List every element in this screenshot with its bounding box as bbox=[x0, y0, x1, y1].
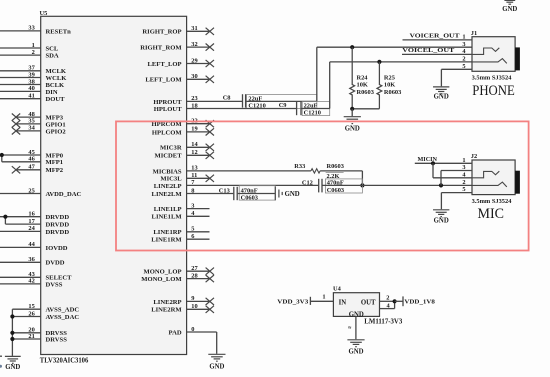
svg-text:PHONE: PHONE bbox=[472, 83, 515, 99]
svg-text:DRVDD: DRVDD bbox=[46, 222, 70, 229]
U5 pin 40 DIN bbox=[0, 85, 58, 96]
svg-text:GND: GND bbox=[209, 364, 224, 371]
svg-text:LINE2RP: LINE2RP bbox=[153, 299, 181, 306]
U5 pin 6 LINE1RM bbox=[151, 233, 209, 244]
svg-text:J2: J2 bbox=[471, 153, 477, 160]
svg-text:OUT: OUT bbox=[361, 299, 376, 306]
U5 pin 5 LINE1RP bbox=[153, 226, 209, 237]
U5 pin 46 MFP1 bbox=[2, 156, 63, 167]
svg-text:C13: C13 bbox=[219, 188, 230, 195]
wire C8 to phone jack pin 3 bbox=[246, 47, 472, 101]
svg-text:24: 24 bbox=[28, 225, 35, 232]
svg-text:R0603: R0603 bbox=[384, 89, 401, 96]
svg-text:MIC3R: MIC3R bbox=[160, 145, 182, 152]
svg-text:1: 1 bbox=[32, 42, 35, 49]
svg-text:DIN: DIN bbox=[46, 89, 58, 96]
connector J1 3.5mm jack PHONE bbox=[471, 30, 520, 82]
U5 pin 12 MICDET bbox=[154, 149, 214, 160]
U5 pin 37 MCLK bbox=[0, 65, 67, 76]
svg-text:2: 2 bbox=[32, 49, 35, 56]
svg-text:3: 3 bbox=[191, 202, 194, 209]
wire LINE2LM pin8 to C13 bbox=[187, 193, 234, 195]
wire HPLOUT pin18 to C9 bbox=[187, 108, 296, 110]
U5 pin 42 DVSS bbox=[0, 278, 63, 289]
svg-text:C1210: C1210 bbox=[304, 109, 321, 116]
svg-text:RIGHT_ROP: RIGHT_ROP bbox=[142, 29, 181, 36]
svg-text:VDD_1V8: VDD_1V8 bbox=[404, 299, 435, 306]
U5 pin 25 AVDD_DAC bbox=[0, 187, 82, 198]
svg-text:19: 19 bbox=[191, 126, 197, 133]
svg-text:DOUT: DOUT bbox=[46, 96, 66, 103]
svg-text:LEFT_LOP: LEFT_LOP bbox=[148, 61, 182, 68]
U5 pin 7 LINE2LP bbox=[154, 179, 196, 190]
resistor R24 10K R0603 bbox=[350, 47, 374, 109]
svg-text:12: 12 bbox=[191, 149, 197, 156]
svg-text:LINE1LP: LINE1LP bbox=[154, 206, 182, 213]
svg-text:34: 34 bbox=[28, 125, 35, 132]
svg-text:MONO_LOP: MONO_LOP bbox=[143, 269, 181, 276]
U5 pin 48 MFP3 bbox=[12, 111, 64, 122]
svg-text:DRVDD: DRVDD bbox=[46, 229, 70, 236]
U5 pin 45 MFP0 bbox=[0, 149, 64, 160]
ground at PAD bbox=[208, 354, 225, 370]
U5 pin 29 LEFT_LOP bbox=[148, 57, 214, 68]
svg-text:42: 42 bbox=[28, 278, 34, 285]
sideways ground at C13 bbox=[275, 187, 299, 201]
svg-text:VOICER_OUT: VOICER_OUT bbox=[410, 33, 461, 40]
wire PAD pin0 to ground bbox=[187, 332, 217, 354]
wire J1 pin5 to ground bbox=[441, 69, 472, 86]
wire U4 pin4 to OUT net bbox=[380, 301, 395, 309]
capacitor C13 470nF C0603 bbox=[219, 186, 275, 202]
svg-text:HPROUT: HPROUT bbox=[153, 99, 182, 106]
svg-text:44: 44 bbox=[28, 241, 35, 248]
label MIC bbox=[478, 206, 505, 222]
svg-text:25: 25 bbox=[28, 187, 34, 194]
U5 pin 38 BCLK bbox=[0, 78, 65, 89]
svg-text:TLV320AIC3106: TLV320AIC3106 bbox=[40, 357, 89, 364]
ground at J1 pin5 bbox=[433, 87, 449, 101]
wire R24-R25 bottom rail bbox=[350, 107, 379, 111]
svg-text:GND: GND bbox=[502, 6, 517, 13]
U5 pin 26 AVSS_DAC bbox=[12, 310, 79, 321]
svg-text:LINE2RM: LINE2RM bbox=[151, 307, 182, 314]
svg-text:PAD: PAD bbox=[169, 329, 182, 336]
svg-text:MFP1: MFP1 bbox=[46, 159, 64, 166]
net VDD_3V3 to U4 pin1 IN bbox=[277, 294, 333, 306]
U5 pin 11 MIC3L bbox=[160, 172, 214, 183]
U5 pin 22 HPRCOM bbox=[152, 118, 214, 129]
svg-text:9: 9 bbox=[191, 295, 194, 302]
svg-text:46: 46 bbox=[28, 156, 35, 163]
net VOICEL_OUT wire to J1 pin4 bbox=[402, 47, 472, 54]
U5 pin 33 RESETn bbox=[0, 25, 71, 36]
svg-text:LINE1RP: LINE1RP bbox=[153, 229, 181, 236]
net VOICER_OUT wire to J1 pin1 bbox=[403, 33, 473, 40]
U5 pin 0 PAD bbox=[169, 326, 195, 337]
IC U5 TLV320AIC3106 body bbox=[40, 10, 187, 365]
svg-text:47: 47 bbox=[28, 164, 35, 171]
svg-text:17: 17 bbox=[28, 218, 35, 225]
svg-text:30: 30 bbox=[191, 73, 197, 80]
svg-text:LINE1RM: LINE1RM bbox=[151, 237, 182, 244]
U5 pin 39 WCLK bbox=[0, 71, 67, 82]
wire C9 to phone jack pin 2 bbox=[302, 62, 473, 109]
U5 pin 4 LINE1LM bbox=[152, 210, 210, 221]
svg-text:GPIO1: GPIO1 bbox=[46, 121, 66, 128]
svg-text:HPLOUT: HPLOUT bbox=[154, 106, 182, 113]
svg-text:29: 29 bbox=[191, 57, 197, 64]
U5 pin 21 DRVSS bbox=[12, 333, 67, 344]
ground at U4 bbox=[347, 340, 364, 356]
svg-text:16: 16 bbox=[28, 211, 35, 218]
svg-text:R0603: R0603 bbox=[357, 89, 374, 96]
J2 pin numbers bbox=[462, 157, 466, 193]
svg-text:MIC3L: MIC3L bbox=[160, 176, 182, 183]
svg-text:28: 28 bbox=[191, 272, 197, 279]
connector J2 3.5mm jack MIC bbox=[471, 153, 520, 205]
U5 pin 15 AVSS_ADC bbox=[12, 303, 79, 314]
svg-text:40: 40 bbox=[28, 85, 34, 92]
svg-text:AVSS_DAC: AVSS_DAC bbox=[46, 314, 80, 321]
ground at J2 pin5 bbox=[433, 210, 449, 225]
svg-text:VOICEL_OUT: VOICEL_OUT bbox=[402, 47, 455, 54]
wire U4 GND pin3 bbox=[348, 316, 356, 339]
svg-text:J1: J1 bbox=[471, 30, 477, 37]
svg-text:GND: GND bbox=[345, 126, 360, 133]
svg-text:GND: GND bbox=[434, 218, 449, 225]
U5 pin 36 DVDD bbox=[0, 256, 65, 267]
U5 pin 18 HPLOUT bbox=[154, 102, 198, 113]
regulator U4 LM1117-3V3 body bbox=[333, 286, 403, 326]
svg-text:U4: U4 bbox=[333, 286, 342, 293]
U5 pin 10 LINE2RM bbox=[151, 303, 214, 314]
svg-text:GND: GND bbox=[285, 191, 300, 198]
U5 pin 3 LINE1LP bbox=[154, 202, 210, 213]
wire HPROUT pin23 to C8 bbox=[187, 100, 242, 102]
svg-text:2: 2 bbox=[462, 56, 465, 63]
svg-text:C9: C9 bbox=[279, 102, 287, 109]
svg-text:GND: GND bbox=[5, 364, 20, 371]
svg-text:MICBIAS: MICBIAS bbox=[153, 168, 182, 175]
svg-text:IN: IN bbox=[339, 299, 347, 306]
svg-text:10: 10 bbox=[191, 303, 197, 310]
capacitor C9 22uF C1210 bbox=[279, 102, 330, 117]
svg-text:DRVDD: DRVDD bbox=[46, 214, 70, 221]
svg-text:AVSS_ADC: AVSS_ADC bbox=[46, 307, 80, 314]
resistor R25 10K R0603 bbox=[377, 62, 401, 109]
U5 pin 30 LEFT_LOM bbox=[145, 73, 214, 84]
U5 pin 8 LINE2LM bbox=[152, 187, 195, 198]
svg-text:C0603: C0603 bbox=[241, 195, 258, 202]
U5 pin 17 DRVDD bbox=[5, 218, 69, 229]
svg-text:3.5mm SJ3524: 3.5mm SJ3524 bbox=[472, 75, 513, 82]
label PHONE bbox=[472, 83, 515, 99]
U5 pin 47 MFP2 bbox=[12, 164, 64, 175]
svg-text:21: 21 bbox=[28, 333, 34, 340]
svg-text:DVDD: DVDD bbox=[46, 260, 65, 267]
svg-text:R0603: R0603 bbox=[327, 163, 344, 170]
svg-text:IOVDD: IOVDD bbox=[46, 245, 68, 252]
svg-text:10K: 10K bbox=[384, 81, 395, 88]
wire LINE2LP branch to J2 pin3 bbox=[439, 171, 472, 188]
svg-text:36: 36 bbox=[28, 256, 35, 263]
svg-text:WCLK: WCLK bbox=[46, 75, 68, 82]
svg-text:39: 39 bbox=[28, 71, 34, 78]
svg-text:LINE2LP: LINE2LP bbox=[154, 183, 182, 190]
svg-text:LM1117-3V3: LM1117-3V3 bbox=[364, 318, 403, 325]
wire MFP0/MFP1 tie at left edge bbox=[0, 153, 4, 162]
ground fragment at image edge bbox=[0, 356, 2, 368]
net MICIN wire to J2 pin1 bbox=[415, 156, 472, 163]
svg-text:2: 2 bbox=[386, 294, 389, 301]
svg-text:AVDD_DAC: AVDD_DAC bbox=[46, 191, 82, 198]
wire LINE2LP pin7 to C12 bbox=[187, 184, 319, 186]
svg-text:MONO_LOM: MONO_LOM bbox=[141, 276, 182, 283]
U5 pin 23 HPROUT bbox=[153, 95, 197, 106]
svg-text:14: 14 bbox=[191, 141, 198, 148]
svg-text:35: 35 bbox=[28, 118, 34, 125]
svg-text:2: 2 bbox=[462, 179, 465, 186]
svg-text:11: 11 bbox=[191, 172, 197, 179]
U5 pin 13 MICBIAS bbox=[153, 165, 198, 176]
svg-text:C8: C8 bbox=[223, 95, 231, 102]
svg-text:GND: GND bbox=[348, 348, 363, 355]
svg-text:LINE1LM: LINE1LM bbox=[152, 214, 183, 221]
U5 pin 34 GPIO2 bbox=[12, 125, 67, 136]
U5 pin 35 GPIO1 bbox=[12, 118, 66, 129]
U5 pin 41 DOUT bbox=[0, 93, 65, 104]
svg-text:SDA: SDA bbox=[46, 53, 59, 60]
svg-text:LINE2LM: LINE2LM bbox=[152, 191, 183, 198]
J1 pin numbers bbox=[462, 34, 466, 70]
highlight box MIC section bbox=[116, 121, 529, 250]
node junction R24 on pin3 net bbox=[350, 45, 354, 49]
svg-text:U5: U5 bbox=[40, 10, 48, 17]
node junction R25 on pin2 net bbox=[377, 60, 381, 64]
node junction U4 output bbox=[393, 299, 397, 303]
svg-text:SCL: SCL bbox=[46, 45, 59, 52]
ground top right corner bbox=[502, 0, 517, 13]
U5 pin 16 DRVDD bbox=[0, 211, 69, 222]
svg-text:41: 41 bbox=[28, 93, 34, 100]
svg-text:R33: R33 bbox=[294, 163, 305, 170]
wire J2 pin5 to ground bbox=[441, 193, 472, 210]
svg-text:3.5mm SJ3524: 3.5mm SJ3524 bbox=[472, 198, 513, 205]
svg-text:MFP2: MFP2 bbox=[46, 167, 64, 174]
capacitor C8 22uF C1210 bbox=[223, 94, 317, 109]
svg-text:GND: GND bbox=[434, 94, 449, 101]
U5 pin 2 SDA bbox=[0, 49, 59, 60]
svg-text:DVSS: DVSS bbox=[46, 281, 63, 288]
U5 pin 19 HPLCOM bbox=[152, 126, 214, 137]
svg-text:31: 31 bbox=[191, 25, 197, 32]
svg-text:15: 15 bbox=[28, 303, 34, 310]
U5 pin 24 DRVDD bbox=[0, 225, 69, 236]
svg-text:MIC: MIC bbox=[478, 206, 505, 222]
wire R33 to LINE2LP net bbox=[320, 171, 364, 188]
U5 pin 28 MONO_LOM bbox=[141, 272, 214, 283]
U5 pin 14 MIC3R bbox=[160, 141, 214, 152]
svg-text:DRVSS: DRVSS bbox=[46, 336, 68, 343]
wire C13 to ground bbox=[238, 193, 275, 195]
U5 pin 43 SELECT bbox=[0, 271, 72, 282]
svg-text:5: 5 bbox=[191, 226, 194, 233]
svg-text:33: 33 bbox=[28, 25, 34, 32]
wire C12 to J2 pin2 bbox=[323, 184, 473, 186]
U5 pin 32 RIGHT_ROM bbox=[140, 41, 214, 52]
svg-text:GPIO2: GPIO2 bbox=[46, 128, 67, 135]
svg-text:26: 26 bbox=[28, 310, 35, 317]
svg-text:LEFT_LOM: LEFT_LOM bbox=[145, 77, 182, 84]
svg-text:HPLCOM: HPLCOM bbox=[152, 129, 182, 136]
svg-text:C0603: C0603 bbox=[327, 187, 344, 194]
U5 pin 27 MONO_LOP bbox=[143, 265, 214, 276]
svg-text:32: 32 bbox=[191, 41, 197, 48]
svg-text:27: 27 bbox=[191, 265, 198, 272]
svg-text:3: 3 bbox=[462, 41, 465, 48]
wire DRVDD 16/17 tie at left edge bbox=[3, 215, 7, 225]
svg-text:RESETn: RESETn bbox=[46, 28, 72, 35]
ground under R24 bbox=[344, 109, 361, 133]
svg-text:10K: 10K bbox=[357, 81, 368, 88]
U5 pin 9 LINE2RP bbox=[153, 295, 214, 306]
svg-text:VDD_3V3: VDD_3V3 bbox=[277, 298, 309, 305]
U5 pin 1 SCL bbox=[0, 42, 59, 53]
svg-text:RIGHT_ROM: RIGHT_ROM bbox=[140, 45, 182, 52]
U5 pin 44 IOVDD bbox=[0, 241, 68, 252]
wire AVSS/DRVSS ground bus bbox=[10, 309, 14, 356]
svg-text:MICDET: MICDET bbox=[154, 153, 182, 160]
U5 pin 20 DRVSS bbox=[12, 327, 67, 338]
wire MICBIAS pin13 to R33 bbox=[187, 170, 311, 172]
svg-text:C12: C12 bbox=[302, 179, 313, 186]
ground for AVSS/DRVSS bus bbox=[5, 356, 21, 371]
capacitor C12 470nF C0603 bbox=[302, 179, 363, 194]
U5 pin 31 RIGHT_ROP bbox=[142, 25, 214, 36]
wire MICIN branch to J2 pin4 bbox=[431, 161, 472, 178]
net VDD_1V8 from U4 output bbox=[395, 296, 436, 306]
wire U4 pin2 OUT bbox=[380, 294, 395, 301]
resistor R33 2.2K R0603 bbox=[294, 163, 344, 180]
svg-text:1: 1 bbox=[322, 294, 325, 301]
